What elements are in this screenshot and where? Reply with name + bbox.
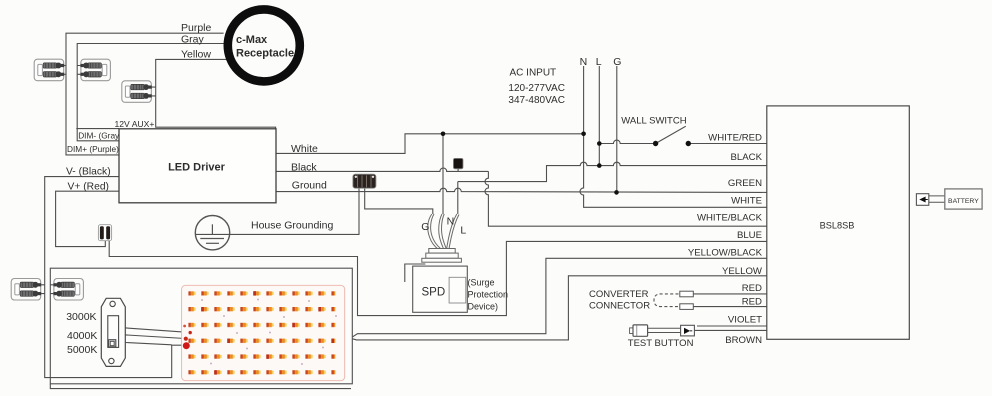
- svg-text:RED: RED: [742, 283, 762, 294]
- svg-text:DIM- (Gray): DIM- (Gray): [78, 131, 122, 141]
- svg-text:12V AUX+: 12V AUX+: [115, 119, 155, 129]
- node white-N junction: [441, 132, 446, 137]
- wire switch position 3000K: [125, 328, 189, 333]
- svg-text:WHITE/BLACK: WHITE/BLACK: [697, 213, 763, 224]
- svg-text:BSL8SB: BSL8SB: [820, 221, 855, 231]
- wire YELLOW lead: [353, 276, 767, 340]
- svg-text:LED Driver: LED Driver: [168, 162, 226, 174]
- wire SPD bracket: [405, 264, 426, 282]
- wire gray / DIM- net: [77, 44, 224, 141]
- wire black from driver with hop over N drop: [276, 168, 488, 171]
- svg-text:Gray: Gray: [181, 34, 205, 46]
- svg-text:G: G: [613, 56, 621, 68]
- node L to switch junction: [597, 141, 602, 146]
- node switch throw: [686, 141, 691, 146]
- label CONVERTER CONNECTOR: [589, 289, 650, 312]
- connector CN2: [80, 59, 110, 80]
- wire house grounding to ground connector: [195, 188, 359, 234]
- node G to green junction: [614, 190, 619, 195]
- black inline component on black wire: [453, 158, 463, 171]
- wire SPD L drop: [457, 182, 459, 214]
- svg-text:V- (Black): V- (Black): [66, 166, 111, 177]
- svg-text:WALL SWITCH: WALL SWITCH: [621, 116, 686, 127]
- wire DIM- label box top: [76, 128, 119, 130]
- wire nut 3000K: [189, 331, 192, 334]
- svg-text:CONNECTOR: CONNECTOR: [589, 301, 650, 312]
- LED panel board: [182, 285, 345, 380]
- svg-text:Ground: Ground: [292, 179, 327, 191]
- wire switch position 4000K: [125, 335, 185, 339]
- svg-text:L: L: [460, 225, 466, 237]
- svg-text:Receptacle: Receptacle: [236, 48, 294, 60]
- label c-Max Receptacle: [236, 34, 294, 60]
- wire RED lead 2: [693, 306, 767, 308]
- wire nut 4000K: [184, 337, 188, 341]
- svg-text:WHITE/RED: WHITE/RED: [708, 133, 762, 144]
- svg-text:VIOLET: VIOLET: [728, 315, 762, 326]
- svg-text:YELLOW/BLACK: YELLOW/BLACK: [688, 248, 763, 259]
- battery box: [945, 189, 982, 209]
- wire BROWN test button lead: [695, 329, 767, 331]
- svg-text:4000K: 4000K: [67, 330, 97, 342]
- label Surge Protection Device: [468, 277, 509, 311]
- wire V- black net: [45, 177, 184, 378]
- labels BSL8SB leads: [688, 133, 763, 347]
- svg-text:N: N: [447, 216, 455, 228]
- connector CN5: [53, 279, 83, 301]
- svg-text:V+ (Red): V+ (Red): [68, 182, 110, 193]
- ground striped connector: [353, 174, 376, 188]
- wire L input drop: [598, 66, 600, 166]
- lamp fixture box: [50, 268, 352, 384]
- svg-text:BROWN: BROWN: [725, 335, 762, 346]
- wire black drop to WHITE/BLACK lead with two hops: [485, 171, 767, 226]
- wire V+ red net: [56, 191, 119, 246]
- wire SPD N drop from white node: [442, 134, 444, 214]
- svg-text:Yellow: Yellow: [181, 49, 211, 61]
- test button symbol: [630, 325, 695, 336]
- svg-text:CONVERTER: CONVERTER: [589, 289, 649, 300]
- wire connector CN1 stubs: [64, 66, 67, 75]
- svg-text:120-277VAC: 120-277VAC: [508, 83, 565, 94]
- wire VIOLET lead: [697, 325, 767, 327]
- svg-text:Black: Black: [291, 161, 317, 173]
- wire L to wall switch WHITE/RED with hop over G: [599, 140, 655, 143]
- wire N to WHITE lead with hop over green: [580, 134, 767, 208]
- connector CN1: [34, 59, 64, 80]
- SPD box: [413, 266, 468, 312]
- svg-text:WHITE: WHITE: [731, 196, 762, 207]
- wire ground / GREEN lead with two hops: [276, 188, 767, 192]
- converter connector plug 2: [680, 304, 694, 310]
- svg-text:BLACK: BLACK: [731, 152, 763, 163]
- svg-text:RED: RED: [742, 296, 762, 307]
- SPD fitting stack: [422, 249, 462, 263]
- wire connector CN3 stubs: [151, 87, 156, 96]
- wall switch blade: [656, 126, 686, 143]
- svg-text:TEST BUTTON: TEST BUTTON: [628, 338, 694, 349]
- node switch pole: [653, 141, 658, 146]
- svg-text:BATTERY: BATTERY: [948, 198, 979, 205]
- wire RED lead 1: [693, 293, 767, 295]
- svg-text:Purple: Purple: [181, 22, 212, 34]
- wire connector CN5 stubs: [50, 285, 54, 294]
- svg-text:Protection: Protection: [468, 289, 509, 299]
- wire N input drop: [583, 66, 585, 134]
- svg-text:G: G: [421, 221, 429, 233]
- wire G input drop: [616, 66, 618, 192]
- svg-text:YELLOW: YELLOW: [722, 266, 763, 277]
- wire V+ to BLUE lead of BSL8SB: [109, 241, 767, 316]
- inline connector on V+ wire: [98, 225, 111, 241]
- LED panel speckles: [201, 299, 337, 366]
- svg-text:AC INPUT: AC INPUT: [510, 68, 557, 79]
- c-Max receptacle ring: [228, 9, 300, 81]
- LED panel crimson variants: [201, 291, 334, 374]
- svg-text:5000K: 5000K: [67, 344, 97, 356]
- svg-text:GREEN: GREEN: [728, 178, 762, 189]
- svg-text:(Surge: (Surge: [468, 277, 495, 287]
- converter connector plug 1: [680, 291, 694, 297]
- svg-text:DIM+ (Purple): DIM+ (Purple): [67, 144, 119, 154]
- wire purple / DIM+ net: [66, 33, 224, 155]
- house grounding circle: [195, 216, 229, 250]
- connector CN4: [11, 279, 41, 301]
- svg-text:L: L: [596, 56, 602, 68]
- svg-text:Device): Device): [468, 301, 499, 311]
- LED driver box: [119, 129, 276, 203]
- wire lamp box shadow edge: [50, 384, 351, 389]
- battery connector: [916, 194, 944, 206]
- CCT switch plate: [101, 298, 125, 366]
- label AC INPUT: [508, 68, 565, 107]
- wire nut common: [183, 342, 190, 349]
- wire nut small: [183, 325, 186, 328]
- node N junction: [581, 132, 586, 137]
- connector CN3 12V AUX: [122, 81, 152, 103]
- wire wall switch to WHITE/RED lead: [688, 143, 767, 145]
- wire yellow / 12V AUX net: [156, 59, 276, 128]
- svg-text:3000K: 3000K: [66, 311, 96, 323]
- SPD squiggle L: [447, 214, 459, 249]
- svg-text:BLUE: BLUE: [737, 230, 762, 241]
- SPD squiggle G: [428, 214, 441, 250]
- svg-text:SPD: SPD: [422, 287, 446, 299]
- wire BLACK lead from SPD L node with hops over N and G: [458, 162, 767, 181]
- svg-text:347-480VAC: 347-480VAC: [508, 95, 565, 106]
- node L to black junction: [597, 163, 602, 168]
- svg-text:c-Max: c-Max: [236, 34, 268, 46]
- LED panel emitters: [188, 291, 335, 374]
- svg-text:House Grounding: House Grounding: [251, 219, 333, 231]
- wire white from driver to N node: [276, 134, 584, 154]
- wire SPD G feed from ground connector: [365, 188, 433, 214]
- svg-text:N: N: [580, 56, 588, 68]
- BSL8SB box: [767, 106, 910, 339]
- svg-text:White: White: [291, 143, 318, 155]
- converter connector dashed link: [654, 294, 679, 307]
- wire switch position 5000K: [125, 343, 171, 345]
- SPD squiggle N: [439, 214, 446, 249]
- wire connector CN4 stubs: [41, 285, 45, 294]
- wire connector CN2 stubs: [77, 66, 81, 75]
- wire YELLOW/BLACK lead: [353, 258, 767, 337]
